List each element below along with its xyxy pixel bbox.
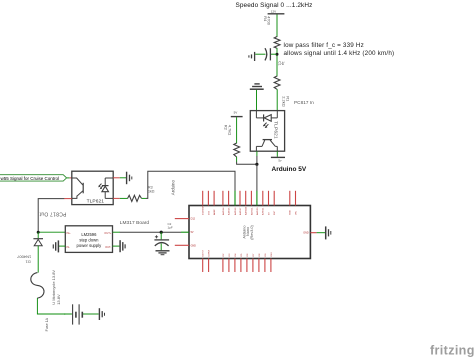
wire LM2596 OUT- to ground — [113, 245, 120, 247]
label Fuse 1A — [45, 317, 49, 331]
svg-text:R1: R1 — [285, 96, 290, 102]
svg-text:Arduino 5V: Arduino 5V — [272, 166, 307, 173]
svg-text:fritzing: fritzing — [430, 344, 474, 357]
wire U1 pin2 to LM2596 — [38, 199, 72, 233]
svg-text:12V: 12V — [271, 9, 276, 13]
wire label to opto U1 — [67, 177, 72, 179]
note low pass filter — [284, 42, 395, 57]
power +12V — [268, 9, 285, 13]
wire R2 to junction J2 — [236, 157, 238, 162]
junction J2 — [255, 163, 258, 166]
wire J2 to Nano pin — [256, 164, 258, 191]
Nano top pin labels — [203, 205, 298, 215]
LED inside U1 — [98, 178, 113, 198]
opto-coupler U1 TLP621 box — [72, 171, 113, 204]
wire U2 pin to J2 — [256, 151, 258, 156]
node A junction — [276, 53, 279, 56]
svg-text:1μ: 1μ — [281, 61, 285, 65]
svg-text:D1/TX: D1/TX — [203, 250, 205, 257]
svg-text:A5/SCL: A5/SCL — [250, 207, 253, 215]
battery BT1 — [73, 304, 83, 324]
Nano top pins — [203, 191, 296, 206]
Nano bottom pins — [203, 259, 271, 273]
phototransistor inside U2 — [256, 140, 277, 152]
svg-text:5v: 5v — [278, 159, 282, 163]
resistor R3 — [128, 186, 155, 202]
svg-text:A1/D15: A1/D15 — [228, 207, 231, 215]
svg-text:1kΩ: 1kΩ — [148, 189, 155, 193]
svg-text:A2/D16: A2/D16 — [234, 207, 237, 215]
svg-text:D0/RX: D0/RX — [209, 249, 211, 256]
svg-text:D12: D12 — [191, 218, 196, 221]
optocoupler U2 PC817 box — [250, 111, 284, 152]
svg-text:allows signal until 1.4 kHz (2: allows signal until 1.4 kHz (200 km/h) — [284, 50, 395, 57]
svg-text:Speedo Signal 0 ...1.2kHz: Speedo Signal 0 ...1.2kHz — [236, 2, 313, 9]
Nano left pins — [175, 218, 196, 248]
svg-text:OUT+: OUT+ — [104, 231, 111, 235]
svg-text:C1: C1 — [278, 61, 282, 65]
svg-text:VIN: VIN — [295, 211, 297, 215]
capacitor C1 — [255, 48, 285, 65]
svg-text:OUT-: OUT- — [105, 245, 111, 249]
Arduino Nano U3 box — [189, 206, 310, 259]
svg-text:TLP621: TLP621 — [87, 198, 105, 204]
ground below C2 — [156, 251, 170, 255]
svg-text:A7/D21: A7/D21 — [262, 207, 265, 215]
diode D1 — [33, 232, 43, 272]
power 5v arrow below U2 — [271, 151, 285, 162]
svg-text:low pass filter f_c = 339 Hz: low pass filter f_c = 339 Hz — [284, 42, 364, 49]
resistor R4 — [263, 16, 280, 48]
capacitor C2 — [154, 222, 172, 250]
ground right of Nano — [326, 226, 331, 239]
svg-text:PC817 In: PC817 In — [294, 100, 314, 105]
Nano right pin to ground — [303, 232, 325, 235]
net label Arduino — [171, 180, 176, 196]
svg-text:(Rev3.0): (Rev3.0) — [250, 225, 254, 240]
svg-text:5V: 5V — [191, 231, 194, 234]
ground above U2 pin1 — [250, 84, 264, 111]
wire U1 pin4 to ground — [113, 177, 126, 179]
power 5V above R2 — [231, 111, 243, 117]
svg-text:GND: GND — [191, 244, 197, 247]
ground left of C1 — [249, 52, 255, 61]
svg-text:5V: 5V — [234, 111, 238, 115]
label LM317 Board — [120, 220, 150, 226]
svg-text:Fuse 1A: Fuse 1A — [45, 317, 49, 331]
svg-text:RST: RST — [274, 210, 276, 215]
svg-text:LM317 Board: LM317 Board — [120, 220, 150, 226]
wire R4 to node A — [276, 48, 278, 77]
svg-text:power supply: power supply — [77, 243, 103, 248]
junction J4 — [37, 231, 40, 234]
svg-text:Arduino: Arduino — [171, 180, 176, 196]
label U Motorcycle — [51, 270, 61, 305]
ground right of LM2596 — [120, 240, 125, 252]
svg-text:AREF: AREF — [213, 209, 216, 215]
svg-text:D1: D1 — [25, 260, 31, 265]
wire to LM2596 IN+ — [38, 231, 65, 233]
resistor R2 — [224, 125, 240, 157]
svg-text:4.7kΩ: 4.7kΩ — [228, 125, 233, 136]
svg-text:step down: step down — [79, 237, 99, 242]
svg-text:A4/SDA: A4/SDA — [245, 207, 248, 215]
fuse F1 — [31, 273, 44, 299]
svg-text:IN-: IN- — [67, 245, 71, 249]
svg-text:4700: 4700 — [267, 16, 272, 26]
svg-text:IN+: IN+ — [67, 231, 72, 235]
ground right of battery — [99, 308, 104, 320]
svg-text:GND: GND — [290, 210, 292, 215]
wire U1 pin3 to R3 — [113, 197, 128, 199]
label 1N4007 D1 — [16, 255, 31, 265]
wire battery to ground — [83, 313, 99, 315]
resistor R1 — [274, 76, 290, 107]
svg-text:A0/D14: A0/D14 — [222, 207, 225, 215]
LM2596 module box — [65, 226, 112, 253]
svg-text:D13/SCK: D13/SCK — [203, 205, 205, 215]
phototransistor inside U1 — [72, 178, 83, 198]
svg-text:w55 Signal for Cruise Control: w55 Signal for Cruise Control — [1, 176, 60, 181]
wire R3 up to Nano pin A — [142, 171, 236, 198]
svg-text:13.8V: 13.8V — [56, 294, 61, 305]
wire 5V to R2 — [236, 117, 238, 143]
svg-text:A3/D17: A3/D17 — [239, 207, 242, 215]
wire LM2596 IN- to ground — [59, 245, 65, 247]
wire 12V to R4 — [276, 15, 278, 38]
svg-text:PC817 Out: PC817 Out — [39, 211, 66, 217]
label x55 cruise control — [0, 175, 67, 181]
svg-text:A6/D20: A6/D20 — [256, 207, 259, 215]
junction J3 — [160, 231, 163, 234]
svg-text:LM2596: LM2596 — [81, 232, 97, 237]
svg-text:TLP621: TLP621 — [273, 121, 279, 139]
wire LM2596 OUT+ to Nano — [113, 231, 182, 233]
title Speedo Signal — [236, 2, 313, 9]
wire fuse to battery — [37, 298, 72, 314]
LED inside U2 — [256, 111, 277, 128]
wire R1 to opto U2 — [276, 89, 278, 110]
label PC817 In — [294, 100, 314, 105]
svg-text:GND: GND — [303, 232, 309, 235]
Nano bottom pin labels — [203, 249, 273, 256]
svg-text:1μF: 1μF — [168, 226, 173, 230]
svg-text:1N4007: 1N4007 — [16, 255, 31, 260]
label Arduino 5V — [272, 166, 307, 173]
ground left of LM2596 — [53, 240, 58, 252]
ground right of U1 — [127, 172, 132, 185]
net label PC817 Out — [39, 211, 66, 217]
fritzing watermark — [430, 344, 474, 357]
